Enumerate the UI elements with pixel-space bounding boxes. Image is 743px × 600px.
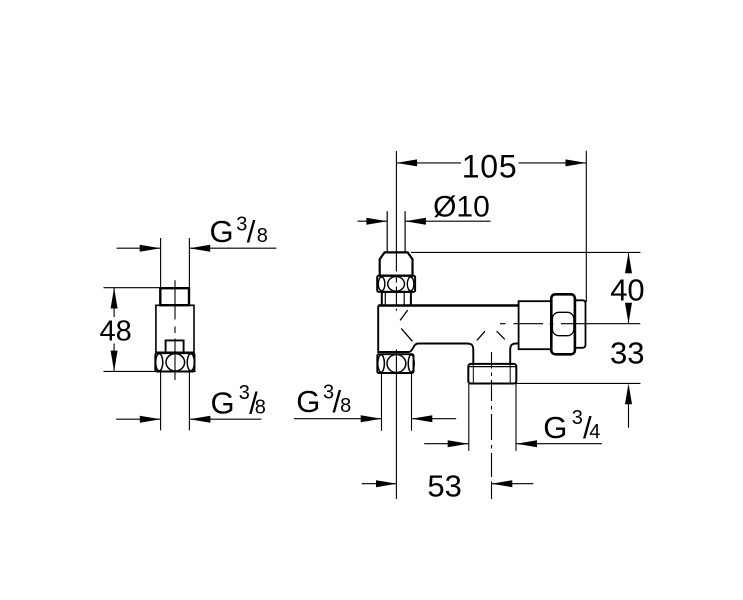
svg-text:G: G [543,410,567,445]
left view inner boss [166,340,184,352]
left view threaded cap [160,288,189,305]
right view G3/8 arrow right [412,415,433,422]
svg-text:105: 105 [462,148,518,184]
dimension 40 arrow down [625,303,632,324]
svg-text:3: 3 [236,213,247,235]
internal passage dash 3 [477,331,485,340]
left view nut ellipse middle [166,354,185,371]
svg-text:48: 48 [100,316,132,348]
dimension G3/4 arrow right [516,440,537,447]
dimension 105 arrow left [396,159,417,166]
bottom outlet flange thread line [469,366,516,368]
svg-text:8: 8 [257,225,268,247]
dimension 48 arrow down [111,351,118,372]
outlet cylinder [519,301,552,349]
valve body outline right step [510,344,518,364]
dimension G3/4 arrow left [448,440,469,447]
dimension Ø10 right arrow [405,218,426,225]
dimension Ø10 left line [358,220,388,222]
valve body top edge [378,304,518,307]
left view bottom G3/8 dimension lines [116,418,261,420]
left view body [156,305,194,352]
svg-text:G: G [211,385,235,420]
dimension 33 shaft [628,402,630,428]
dimension Ø10 left arrow [366,218,387,225]
left view bottom G3/8 arrow right [190,416,211,423]
dimension 40 line [628,252,630,323]
dimension 53 arrow right [492,480,513,487]
dimension 105 lines [396,162,586,164]
bottom outlet flange G3/4 [468,364,516,384]
left view top G3/8 dimension lines [117,247,277,249]
svg-text:4: 4 [589,421,600,443]
right view inlet hex nut [377,276,415,292]
left view hex nut [155,353,194,371]
bottom-left nut extension lines [382,373,412,431]
dimension G3/4 lines [424,443,602,445]
right view inlet nut ellipse right [407,277,414,291]
bottom outlet flange inner walls [473,365,510,384]
bottom-left nut ellipse left [378,355,385,372]
dimension 48 line [113,288,115,372]
dimension 105 arrow right [566,159,587,166]
svg-text:Ø10: Ø10 [433,190,490,223]
dimension 33 arrow up [625,383,632,404]
dimension 40 arrow up [625,252,632,273]
dimension 53 lines [362,483,534,485]
dimension 53 arrow left [376,480,397,487]
svg-text:G: G [210,214,234,249]
internal passage dash 4 [497,331,505,339]
svg-text:53: 53 [427,469,461,504]
outlet big nut [551,294,575,354]
svg-text:40: 40 [610,272,644,307]
left view top G3/8 arrow left [140,245,161,252]
valve body outline left [378,306,473,364]
svg-text:3: 3 [572,407,583,429]
dimension G3/4 extension lines [469,384,516,451]
left view upper extension lines (G3/8 pipe) [161,238,190,288]
right view stub thread lines [385,293,404,306]
bottom-left nut ellipse right [408,355,414,372]
right view inlet centerline [395,151,397,499]
left view bottom G3/8 arrow left [140,416,161,423]
dimension 48 arrow up [111,288,118,309]
svg-text:8: 8 [255,396,266,418]
right view outlet centerline [500,323,640,325]
right view bottom outlet centerline [491,352,493,499]
right view G3/8 arrow left [361,415,382,422]
svg-text:G: G [296,384,320,419]
right view inlet pipe walls [387,211,405,252]
svg-text:33: 33 [610,336,644,371]
dimension 40 top extension line [411,251,640,253]
left view centerline [174,280,176,380]
left view nut ellipse right [187,354,194,371]
right view G3/8 dimension lines [294,418,456,420]
left view top G3/8 arrow right [189,245,210,252]
right view threaded stub [382,292,411,306]
right view bottom-left hex nut [377,354,413,373]
dimension 33 bottom extension line [516,382,641,384]
left view lower extension lines (G3/8 pipe) [161,372,190,431]
internal passage dash 1 [400,310,408,320]
left view nut ellipse left [156,354,163,371]
svg-text:8: 8 [340,395,351,417]
right view inlet nut ellipse left [378,277,385,291]
svg-text:/: / [247,214,256,249]
outlet end cap [575,300,586,348]
right view compression cap [380,252,413,275]
bottom-left nut ellipse middle [387,355,406,373]
dimension Ø10 right line [405,220,491,222]
right view inlet nut ellipse middle [388,277,405,292]
internal passage dash 2 [401,328,412,341]
dimension 105 right extension line [585,151,587,302]
dimension 48 extension lines [104,288,196,372]
outlet nut facet [552,312,573,335]
